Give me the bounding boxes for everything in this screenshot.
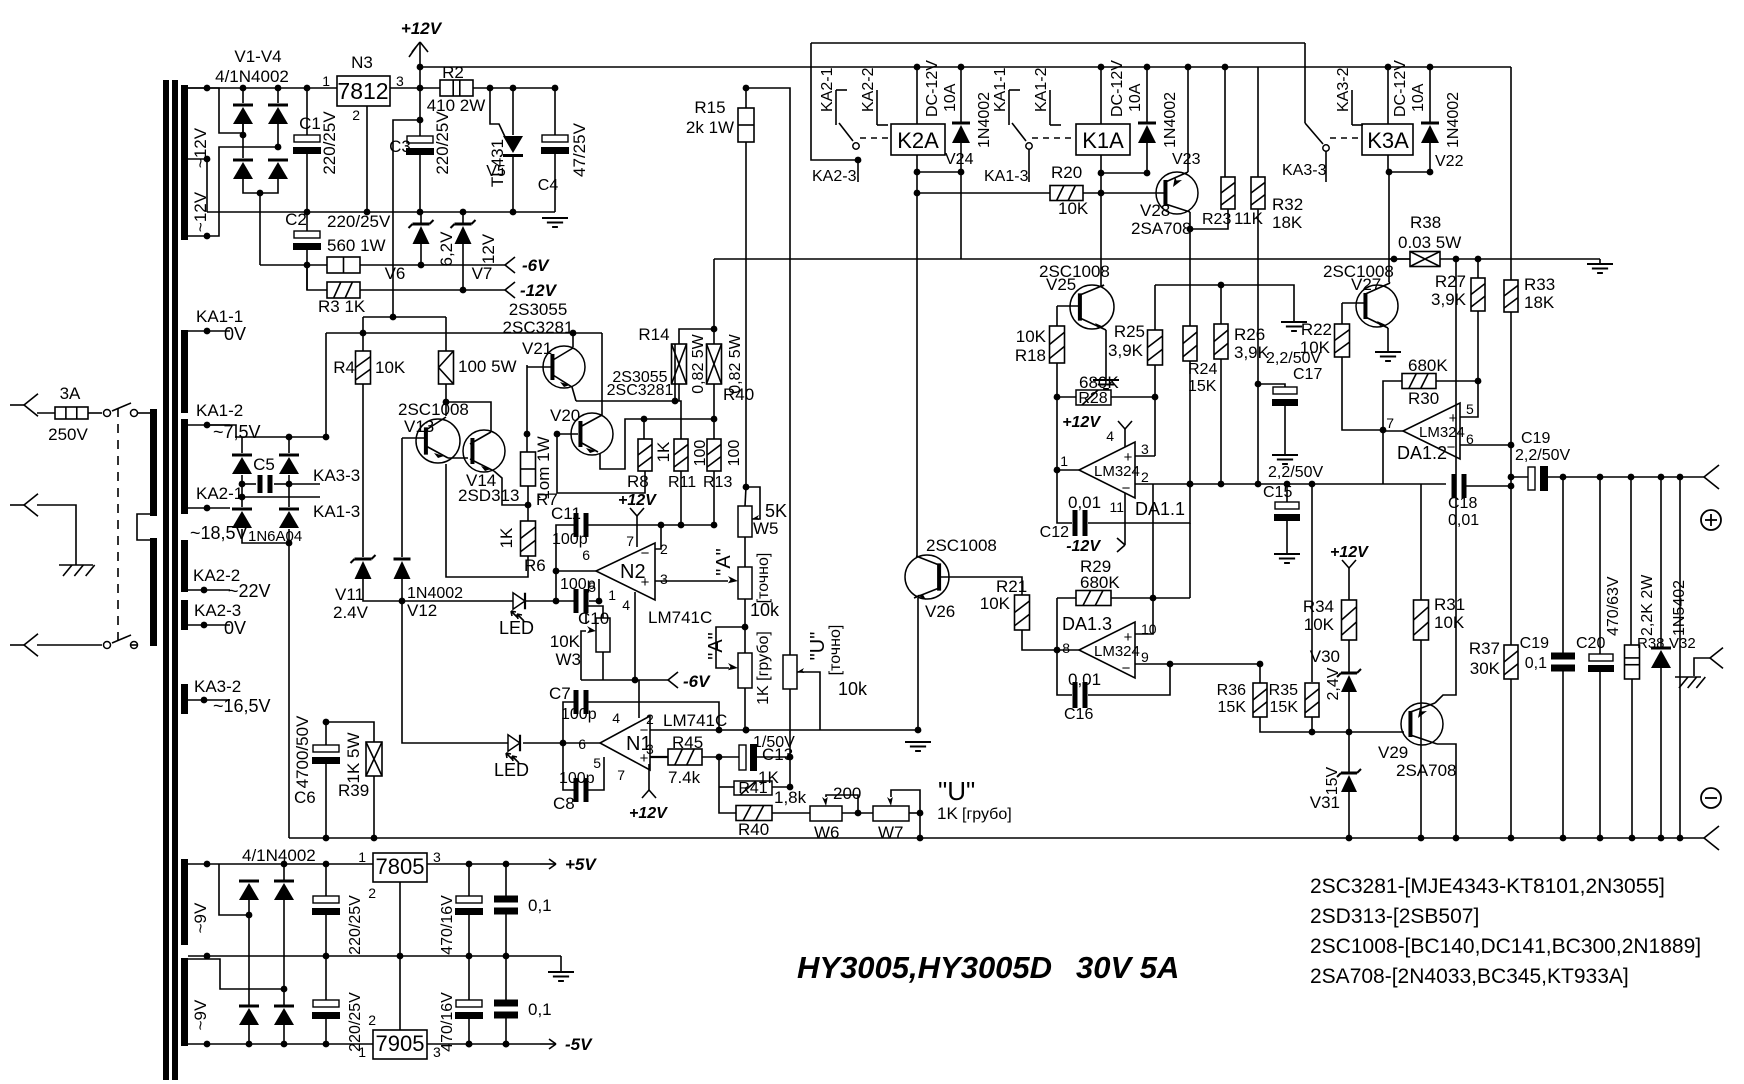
- -12V arrow: [505, 282, 515, 290]
- svg-text:R32: R32: [1272, 195, 1303, 214]
- svg-text:K2A: K2A: [897, 128, 939, 153]
- R14 R40 top wires: [679, 329, 714, 344]
- svg-text:2SD313: 2SD313: [458, 486, 519, 505]
- capacitor C12 0,01: [1073, 510, 1078, 536]
- svg-text:KA1-3: KA1-3: [984, 168, 1029, 185]
- resistor R32 18K: [1257, 67, 1259, 177]
- capacitor C23 470/16V top: [468, 864, 470, 896]
- svg-text:K1A: K1A: [1082, 128, 1124, 153]
- N2 apex wire: [556, 571, 596, 601]
- R18 bottom wire: [1056, 363, 1058, 397]
- ground right: [1599, 259, 1601, 264]
- svg-text:V22: V22: [1435, 153, 1464, 170]
- svg-text:R4: R4: [333, 358, 355, 377]
- resistor R27 3,9K: [1477, 259, 1479, 278]
- svg-text:R40: R40: [738, 820, 769, 839]
- svg-text:C1: C1: [299, 114, 321, 133]
- DA1.2 pin5 wire: [1460, 381, 1478, 417]
- mid rail ground: [560, 956, 562, 972]
- svg-text:V23: V23: [1172, 151, 1201, 168]
- wire R4 to V11: [362, 384, 364, 557]
- capacitor C1 220/25V: [306, 88, 308, 135]
- V26 base wire: [939, 577, 1022, 595]
- svg-text:LED: LED: [499, 618, 534, 638]
- svg-text:-5V: -5V: [565, 1035, 593, 1054]
- 7805 output wire: [427, 863, 540, 865]
- wire C3 to negative vertical: [393, 120, 420, 317]
- transistor V29 2SA708: [1401, 703, 1443, 745]
- -6V line: [581, 679, 668, 681]
- R27 bottom wire: [1477, 311, 1479, 381]
- V28 collector wire: [1187, 67, 1189, 172]
- svg-text:10k: 10k: [750, 600, 780, 620]
- svg-text:"A": "A": [705, 632, 727, 660]
- svg-text:2k 1W: 2k 1W: [686, 118, 734, 137]
- R20 node: [914, 190, 921, 197]
- svg-text:1: 1: [322, 73, 330, 89]
- capacitor C25 0,1 top: [505, 864, 507, 898]
- svg-text:2SC3281: 2SC3281: [607, 382, 674, 399]
- -6V arrow: [505, 257, 515, 265]
- C5 bridge top wire: [207, 425, 326, 437]
- svg-text:0.03 5W: 0.03 5W: [1398, 233, 1461, 252]
- -5V arrow: [540, 1043, 556, 1045]
- svg-text:15V: 15V: [1324, 766, 1341, 795]
- svg-text:+12V: +12V: [618, 492, 657, 509]
- svg-text:DA1.3: DA1.3: [1062, 614, 1112, 634]
- wire R3 to V7: [360, 289, 505, 291]
- svg-text:2SA708-[2N4033,BC345,KT933A]: 2SA708-[2N4033,BC345,KT933A]: [1310, 965, 1629, 988]
- switch S1a: [88, 412, 102, 414]
- resistor R18 10K: [1056, 306, 1058, 326]
- V21 emitter wire: [572, 387, 576, 401]
- svg-text:0,01: 0,01: [1448, 512, 1479, 529]
- svg-text:220/25V: 220/25V: [347, 992, 364, 1052]
- V27 base wire: [1342, 302, 1366, 304]
- transistor V28 2SA708: [1156, 172, 1198, 214]
- wire W1 top: [188, 88, 230, 133]
- transformer core: [163, 80, 169, 1080]
- pot W5 5K: [738, 506, 752, 537]
- capacitor C11 100p: [556, 525, 574, 571]
- R24 bottom wire: [1189, 361, 1191, 484]
- svg-text:HY3005,HY3005D: HY3005,HY3005D: [797, 950, 1052, 985]
- svg-text:220/25V: 220/25V: [320, 111, 339, 175]
- W5 top wire: [188, 863, 373, 865]
- diode VD3: [248, 915, 250, 1006]
- sense terminal with chassis ground: [1679, 477, 1681, 838]
- svg-text:+: +: [1124, 629, 1133, 646]
- pot A tocno 10k: [744, 537, 746, 567]
- svg-text:−: −: [1122, 480, 1131, 497]
- svg-text:R15: R15: [694, 98, 725, 117]
- DA1.2 pin6 output: [1460, 444, 1511, 446]
- ground C4: [542, 217, 568, 219]
- resistor R13 100: [707, 439, 721, 471]
- R15 bottom wire to W5 chain: [745, 142, 747, 487]
- W3 bottom wire: [602, 652, 604, 680]
- svg-text:2SC3281-[MJE4343-KT8101,2N3055: 2SC3281-[MJE4343-KT8101,2N3055]: [1310, 875, 1665, 898]
- svg-text:2,2/50V: 2,2/50V: [1268, 464, 1323, 481]
- svg-text:KA3-3: KA3-3: [313, 466, 360, 485]
- bridge bottom wire: [243, 178, 278, 193]
- svg-text:2: 2: [1141, 469, 1149, 485]
- diode VD1: [219, 864, 249, 915]
- svg-text:2S3055: 2S3055: [509, 300, 568, 319]
- pot W3 10K: [596, 618, 610, 652]
- earth wire: [37, 505, 76, 565]
- svg-text:2: 2: [368, 1012, 376, 1028]
- plus symbol: [1701, 510, 1721, 530]
- svg-text:-6V: -6V: [522, 256, 550, 275]
- svg-text:6,2V: 6,2V: [437, 231, 456, 267]
- regulator 7905: [373, 1030, 427, 1059]
- resistor R37 30K: [1510, 644, 1512, 646]
- KA1-1 contact: [1009, 89, 1020, 91]
- resistor R45 7.4k: [650, 756, 668, 758]
- svg-text:V30: V30: [1310, 647, 1340, 666]
- wire 560 to V6: [360, 264, 505, 266]
- svg-text:C8: C8: [553, 794, 575, 813]
- tap KA2-3 0V: [188, 624, 230, 626]
- positive output chevron: [1704, 465, 1719, 477]
- diode V4 wiring: [277, 123, 279, 147]
- K1A coil wires: [1100, 67, 1102, 124]
- svg-text:10K: 10K: [1058, 199, 1089, 218]
- winding W2: [181, 330, 188, 413]
- svg-text:10A: 10A: [1127, 83, 1144, 112]
- V20 emitter wire: [600, 419, 644, 469]
- R25 bottom wire: [1154, 365, 1156, 397]
- svg-text:15K: 15K: [1270, 699, 1299, 716]
- V27 collector wire: [1389, 282, 1390, 283]
- svg-text:C18: C18: [1448, 495, 1477, 512]
- wire LED2 to N1: [523, 742, 600, 744]
- svg-text:KA1-2: KA1-2: [196, 401, 243, 420]
- svg-text:W7: W7: [878, 823, 904, 842]
- svg-text:R20: R20: [1051, 163, 1082, 182]
- +12V feed to U pot: [746, 88, 790, 655]
- svg-text:5: 5: [588, 579, 596, 595]
- rail y317: [363, 316, 446, 318]
- resistor R31 10K: [1420, 484, 1422, 600]
- DA1.2 pin7 wire: [1383, 430, 1403, 432]
- V21 collector wire: [572, 333, 574, 347]
- bottom negative rail: [289, 837, 1704, 839]
- svg-text:R13: R13: [703, 474, 732, 491]
- R21 bottom wire: [1022, 630, 1057, 650]
- svg-text:4/1N4002: 4/1N4002: [242, 846, 316, 865]
- wire LED2 left from V12 rail: [402, 601, 508, 743]
- svg-text:W6: W6: [814, 823, 840, 842]
- svg-text:C20: C20: [1576, 635, 1605, 652]
- pot W6 200: [810, 806, 842, 821]
- V28 collector node: [1189, 212, 1191, 229]
- svg-text:12V: 12V: [479, 233, 498, 264]
- winding W3: [181, 540, 188, 592]
- K2A coil wires: [916, 67, 918, 124]
- svg-text:~9V: ~9V: [191, 902, 210, 933]
- diode V2: [242, 88, 244, 103]
- svg-text:V32: V32: [1669, 635, 1696, 652]
- transistor V13 2SC1008: [445, 384, 447, 402]
- svg-text:15K: 15K: [1218, 699, 1247, 716]
- svg-text:"U": "U": [938, 776, 975, 806]
- V31 bottom wire: [1348, 792, 1350, 838]
- svg-text:KA1-2: KA1-2: [1033, 67, 1050, 112]
- W7 to bottom rail: [919, 813, 921, 838]
- svg-text:−: −: [641, 545, 650, 562]
- R25 to pin3 wire: [1154, 397, 1156, 456]
- svg-text:KA2-3: KA2-3: [812, 168, 857, 185]
- R23 bottom wire: [1190, 209, 1228, 229]
- svg-text:100 5W: 100 5W: [458, 357, 517, 376]
- primary link: [137, 514, 153, 540]
- capacitor C18 0,01: [1452, 474, 1457, 498]
- capacitor C21 220/25V top: [325, 864, 327, 896]
- R29 to DA1.1 out link: [1153, 597, 1190, 599]
- V28 node to R24: [1189, 229, 1191, 326]
- svg-text:3A: 3A: [60, 384, 81, 403]
- KA1-3 stub: [1028, 149, 1030, 182]
- N1 pin7 +12V: [648, 764, 650, 790]
- resistor R38b 2,2K 2W: [1630, 477, 1632, 645]
- op-amp N1 LM741C: [600, 716, 650, 770]
- KA2-1 contact: [811, 43, 858, 160]
- capacitor C22 220/25V bottom: [325, 956, 327, 1000]
- KA3-3 stub: [1325, 151, 1327, 182]
- R38 right / ground rail: [1440, 258, 1600, 260]
- resistor R34 10K: [1342, 600, 1357, 640]
- svg-text:30V 5A: 30V 5A: [1076, 950, 1179, 985]
- DA1.1 -12V arrow: [1124, 493, 1126, 545]
- diode V23 1N4002: [1146, 67, 1148, 123]
- V13 base wire: [402, 437, 424, 439]
- wire R40 to W6: [772, 812, 810, 814]
- svg-text:"U": "U": [807, 632, 829, 661]
- pot U tocno 10k: [783, 655, 797, 689]
- svg-text:200: 200: [833, 784, 861, 803]
- DA1.1 pin3 wire: [1135, 455, 1155, 457]
- tap KA1-1 0V: [188, 330, 230, 332]
- capacitor C15 2,2/50V: [1286, 484, 1288, 502]
- negative rail y212: [207, 211, 555, 213]
- relay K1A: [1032, 137, 1076, 139]
- svg-text:18K: 18K: [1524, 293, 1555, 312]
- svg-text:2SD313-[2SB507]: 2SD313-[2SB507]: [1310, 905, 1479, 928]
- svg-text:R3 1K: R3 1K: [318, 297, 366, 316]
- svg-text:C15: C15: [1263, 484, 1292, 501]
- V20 base wire: [557, 433, 578, 435]
- svg-text:R31: R31: [1434, 595, 1465, 614]
- svg-text:100p: 100p: [559, 770, 595, 787]
- resistor R25 3,9K: [1154, 285, 1156, 330]
- svg-text:2,2/50V: 2,2/50V: [1515, 447, 1570, 464]
- svg-text:DC-12V: DC-12V: [1392, 60, 1409, 117]
- svg-text:0,01: 0,01: [1068, 670, 1101, 689]
- svg-text:0V: 0V: [224, 618, 246, 638]
- tap KA3-2 16,5V: [188, 699, 230, 701]
- svg-text:10A: 10A: [942, 83, 959, 112]
- LED upper: [513, 593, 525, 610]
- op-amp DA1.1 LM324: [1079, 442, 1135, 498]
- switch S1b: [131, 644, 137, 646]
- R31 bottom wire: [1420, 640, 1422, 838]
- R22 bottom wire: [1342, 357, 1383, 430]
- V25 base wire: [1057, 305, 1080, 307]
- zener V6 6,2V: [413, 223, 430, 226]
- svg-text:2SC1008: 2SC1008: [926, 536, 997, 555]
- wire bridge top: [188, 87, 310, 89]
- svg-text:8: 8: [1062, 640, 1070, 656]
- +12V supply arrow: [419, 42, 421, 88]
- resistor R7 1om 1W: [521, 452, 536, 486]
- R36 R35 bottom wires: [1260, 717, 1404, 732]
- transistor V14 2SD313: [463, 430, 505, 472]
- svg-text:V1-V4: V1-V4: [234, 47, 281, 66]
- resistor R2 410 2W: [440, 80, 473, 96]
- svg-text:R21: R21: [996, 577, 1027, 596]
- svg-text:LED: LED: [494, 760, 529, 780]
- svg-text:KA2-1: KA2-1: [196, 484, 243, 503]
- svg-text:100: 100: [726, 440, 743, 467]
- svg-text:1K 5W: 1K 5W: [344, 732, 363, 783]
- svg-text:W3: W3: [556, 650, 582, 669]
- KA2-2 contact: [876, 90, 878, 125]
- svg-text:3,9K: 3,9K: [1234, 343, 1270, 362]
- svg-text:11: 11: [1109, 499, 1124, 515]
- input terminal N: [37, 644, 102, 646]
- svg-text:4: 4: [1106, 428, 1114, 444]
- diode V22 1N4002: [1429, 67, 1431, 123]
- relay top rail y43: [811, 42, 1305, 44]
- resistor R11 100: [674, 439, 688, 471]
- svg-text:−: −: [640, 722, 649, 739]
- resistor 100 5W: [439, 351, 454, 384]
- tap KA2-2 22V: [188, 589, 230, 591]
- rail y333: [326, 332, 602, 334]
- KA3-2 contact: [1351, 90, 1353, 125]
- ground line R25 R26: [1155, 285, 1294, 322]
- svg-text:R18: R18: [1015, 346, 1046, 365]
- svg-text:30K: 30K: [1470, 659, 1501, 678]
- N2 pin4 wire: [634, 592, 636, 680]
- svg-text:0,1: 0,1: [528, 896, 552, 915]
- svg-text:DA1.2: DA1.2: [1397, 443, 1447, 463]
- svg-text:~16,5V: ~16,5V: [213, 696, 271, 716]
- diode V24 1N4002: [960, 67, 962, 123]
- svg-text:+12V: +12V: [401, 19, 443, 38]
- svg-text:KA3-2: KA3-2: [1335, 67, 1352, 112]
- V20 collector wire: [601, 401, 603, 415]
- diode VD2: [274, 880, 294, 883]
- svg-text:R26: R26: [1234, 325, 1265, 344]
- svg-text:R45: R45: [672, 733, 703, 752]
- svg-text:1K: 1K: [937, 804, 958, 823]
- svg-text:220/25V: 220/25V: [327, 212, 391, 231]
- ground symbol R25 R26: [1281, 321, 1307, 323]
- regulator N3 7812: [337, 76, 390, 106]
- feedback vertical from pin7: [1382, 430, 1384, 484]
- svg-text:1K: 1K: [497, 527, 516, 548]
- svg-text:V7: V7: [472, 264, 493, 283]
- resistor R8 1K: [643, 419, 645, 439]
- diode V2 lower-left: [233, 159, 253, 162]
- svg-text:-12V: -12V: [520, 281, 558, 300]
- K1A to V25 vertical: [1100, 173, 1102, 287]
- svg-text:KA2-2: KA2-2: [860, 67, 877, 112]
- svg-text:KA2-1: KA2-1: [819, 67, 836, 112]
- svg-text:220/25V: 220/25V: [347, 895, 364, 955]
- svg-text:470/16V: 470/16V: [439, 992, 456, 1052]
- R32 bottom wire: [1257, 209, 1259, 484]
- tap KA1-2 7,5V: [188, 424, 230, 426]
- svg-text:N3: N3: [351, 53, 373, 72]
- svg-text:−: −: [1122, 660, 1131, 677]
- wire to primary: [137, 412, 152, 414]
- svg-text:R40: R40: [723, 385, 754, 404]
- C5 bridge bottom wire: [242, 529, 289, 543]
- svg-text:18K: 18K: [1272, 213, 1303, 232]
- svg-text:V21: V21: [522, 339, 552, 358]
- op-amp DA1.3 LM324: [1079, 622, 1135, 678]
- svg-text:10A: 10A: [1410, 83, 1427, 112]
- svg-text:2SC3281: 2SC3281: [503, 318, 574, 337]
- resistor R39 1K 5W: [326, 722, 374, 742]
- N2 pin3 output wire to A pot: [655, 580, 728, 582]
- N1 pin4 wire to -6V: [638, 680, 640, 718]
- svg-text:KA1-1: KA1-1: [992, 67, 1009, 112]
- svg-text:R25: R25: [1114, 322, 1145, 341]
- regulator 7805: [373, 853, 427, 882]
- 7905 output wire: [427, 1043, 540, 1045]
- A grubo bottom wire: [744, 688, 746, 730]
- diode V1: [230, 123, 243, 133]
- 7812 output wire: [390, 87, 440, 89]
- svg-text:+: +: [1124, 449, 1133, 466]
- U pot bottom wire: [789, 689, 791, 757]
- svg-text:DC-12V: DC-12V: [1109, 60, 1126, 117]
- svg-text:C19: C19: [1521, 430, 1550, 447]
- resistor R23 11K: [1224, 67, 1226, 177]
- N1 pin2 line: [650, 729, 918, 731]
- capacitor C4 47/25V: [554, 88, 556, 135]
- V21 base wire: [527, 366, 553, 368]
- svg-text:C5: C5: [253, 455, 275, 474]
- C16 right wire: [1088, 664, 1170, 695]
- wire W6 to W7: [842, 812, 873, 814]
- svg-text:1: 1: [1060, 453, 1068, 469]
- svg-text:[грубо]: [грубо]: [962, 806, 1012, 823]
- svg-text:R27: R27: [1435, 272, 1466, 291]
- svg-text:10K: 10K: [1300, 338, 1331, 357]
- svg-text:3,9K: 3,9K: [1108, 341, 1144, 360]
- svg-text:R37: R37: [1469, 639, 1500, 658]
- resistor R6 1K: [521, 521, 536, 556]
- R7-R6 link: [527, 486, 529, 521]
- svg-text:7: 7: [626, 533, 634, 549]
- svg-text:2: 2: [368, 885, 376, 901]
- svg-text:R24: R24: [1188, 361, 1217, 378]
- svg-text:V29: V29: [1378, 743, 1408, 762]
- svg-text:470/16V: 470/16V: [439, 895, 456, 955]
- main feedback line y484: [1383, 483, 1446, 485]
- relay K2A: [860, 137, 891, 139]
- svg-text:R33: R33: [1524, 275, 1555, 294]
- svg-text:C11: C11: [551, 504, 581, 523]
- +5V arrow: [540, 863, 556, 865]
- resistor R35 15K: [1305, 683, 1319, 717]
